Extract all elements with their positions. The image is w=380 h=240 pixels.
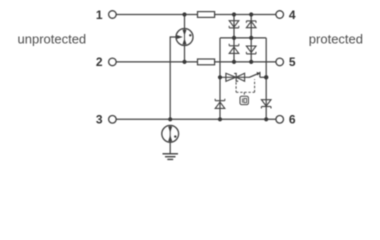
svg-text:4: 4 <box>289 8 296 22</box>
wire switch to right column <box>260 76 266 78</box>
wire diode column left vertical <box>233 15 235 62</box>
wire F2 to ground <box>169 142 171 154</box>
junction dots <box>168 12 268 121</box>
dashed drop to indicator <box>243 92 245 96</box>
gas discharge tube F1 (3-electrode) circle <box>176 29 193 46</box>
diode V5 bottom-left (cathode up, winged bar) <box>215 99 225 109</box>
junction mid rail / V1-V3 <box>232 36 236 40</box>
terminal 2 <box>109 58 117 66</box>
wire F1 third electrode arm to ground column <box>170 37 177 119</box>
dashed coupling line horizontal <box>236 91 255 93</box>
wire line1 top rail <box>116 14 276 16</box>
ground symbol <box>163 154 179 160</box>
F1 arrow down <box>183 30 187 36</box>
svg-text:6: 6 <box>289 113 296 127</box>
terminal 1 <box>109 11 117 19</box>
junction line2 / V4 <box>249 60 253 64</box>
wire gas tube F1 top electrode drop <box>184 15 186 63</box>
terminal 5 <box>276 58 284 66</box>
junction mid rail / V2-V4 <box>249 36 253 40</box>
resistor R1 <box>198 12 215 18</box>
F2 arrow up <box>168 135 172 141</box>
svg-text:protected: protected <box>309 31 363 46</box>
terminal 6 <box>276 116 284 124</box>
F1 electrode line vertical <box>184 29 186 46</box>
svg-text:1: 1 <box>96 8 103 22</box>
F1 arrow right (third electrode) <box>177 35 183 39</box>
wire diode column right vertical <box>250 15 252 62</box>
F1 arrow up <box>183 38 187 44</box>
F2 dot mark <box>174 135 176 137</box>
svg-text:2: 2 <box>96 55 103 69</box>
defect indicator box <box>240 96 248 104</box>
junction switch / right column <box>264 75 268 79</box>
F2 arrow down <box>168 126 172 132</box>
junction line2 / F1 <box>182 60 186 64</box>
diode V2 top-right (cathode up, winged bar) <box>246 21 256 28</box>
F2 electrode line vertical <box>169 126 171 143</box>
junction line3 / ground column <box>168 117 172 121</box>
resistor R2 <box>198 59 215 65</box>
wire bridge middle rail <box>220 37 266 39</box>
diode V3 mid-left (cathode up, winged bar) <box>229 44 239 54</box>
TVS right triangle <box>236 73 244 81</box>
diode V1 top-left (cathode down, winged bar) <box>229 21 239 28</box>
dashed coupling line from TVS center <box>235 82 237 92</box>
F1 dot mark <box>189 34 191 36</box>
junction top rail / V1 <box>232 12 236 16</box>
junction line3 / V5 <box>218 117 222 121</box>
junction line2 / V3 <box>232 60 236 64</box>
svg-text:5: 5 <box>289 55 296 69</box>
switch blade tip arrow <box>257 72 260 76</box>
wire line2 middle rail <box>116 61 276 63</box>
terminal 4 <box>276 11 284 19</box>
svg-text:unprotected: unprotected <box>18 31 87 46</box>
dashed coupling line up to switch <box>254 79 256 92</box>
junction TVS / left column <box>218 75 222 79</box>
wire left column of diode bridge <box>219 38 221 119</box>
gas discharge tube F2 (2-electrode) circle <box>162 125 179 142</box>
disconnect switch blade <box>249 73 259 77</box>
junction top rail / F1 <box>182 12 186 16</box>
wire right column of diode bridge <box>265 38 267 119</box>
wire line3 ground rail <box>116 118 276 120</box>
diode V6 bottom-right (cathode down, winged bar) <box>261 100 271 109</box>
TVS center bar with hooks <box>234 73 238 81</box>
terminal 3 <box>109 116 117 124</box>
diode V4 mid-right (cathode down, winged bar) <box>246 46 256 54</box>
svg-text:3: 3 <box>96 113 103 127</box>
indicator glyph <box>242 98 246 102</box>
junction line3 / V6 <box>264 117 268 121</box>
wire TVS through lead <box>220 76 249 78</box>
suppressor diode (bidirectional TVS) left triangle <box>226 73 236 81</box>
junction top rail / V2 <box>249 12 253 16</box>
switch fixed contact bar <box>259 72 261 78</box>
